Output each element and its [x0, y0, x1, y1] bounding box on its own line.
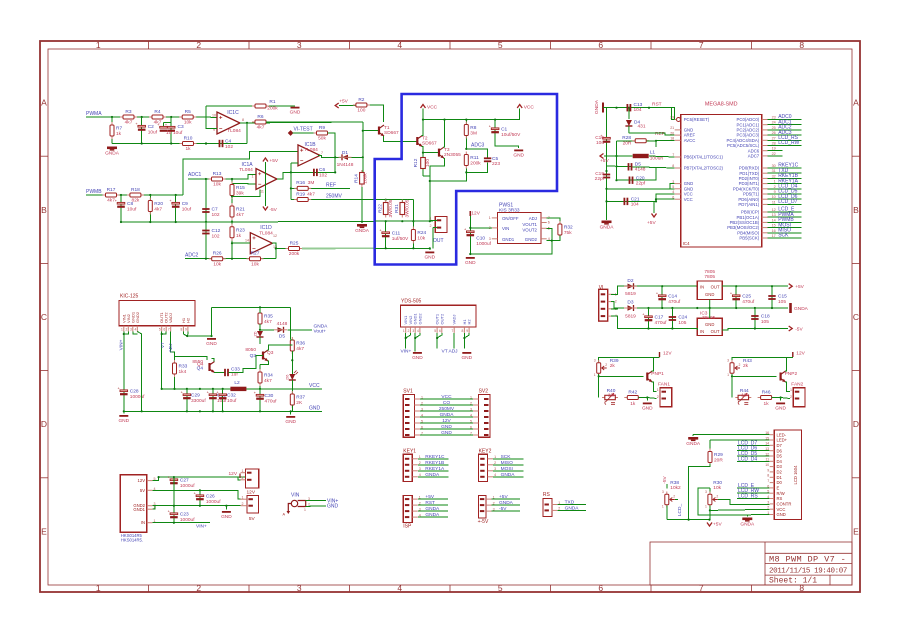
wire [547, 218, 560, 224]
svg-text:1: 1 [403, 329, 405, 333]
junction [385, 220, 387, 222]
wire RKEY1C [418, 458, 449, 460]
svg-text:+5V: +5V [499, 494, 508, 500]
diode D5 [274, 327, 287, 333]
svg-text:1: 1 [774, 180, 776, 184]
wire [415, 333, 420, 338]
svg-text:1: 1 [657, 388, 659, 392]
ground GNDA [742, 518, 752, 521]
resistor R46 [758, 396, 775, 400]
svg-text:3: 3 [130, 328, 132, 332]
svg-text:102: 102 [225, 144, 233, 150]
svg-text:R34: R34 [264, 373, 273, 379]
wire -5V [611, 316, 697, 329]
svg-text:1000uf: 1000uf [206, 499, 221, 505]
wire [175, 195, 177, 222]
svg-text:RKEY1B: RKEY1B [425, 460, 444, 466]
svg-text:5: 5 [498, 583, 503, 593]
svg-text:105: 105 [778, 299, 786, 305]
ground GND [466, 257, 475, 259]
potentiometer R30 [709, 492, 711, 508]
capacitor C24 [669, 317, 676, 320]
junction [709, 509, 711, 511]
svg-text:4k7: 4k7 [154, 207, 162, 213]
svg-text:104: 104 [631, 201, 639, 207]
svg-text:431: 431 [638, 124, 646, 130]
resistor R17 [103, 193, 120, 197]
resistor R31 [400, 200, 405, 218]
wire [259, 307, 261, 313]
wire [334, 133, 336, 157]
wire [173, 477, 175, 506]
pin 3 [147, 505, 153, 507]
svg-text:1: 1 [121, 328, 123, 332]
svg-text:2: 2 [242, 502, 244, 506]
resistor R6 [252, 120, 269, 124]
resistor R26 [209, 257, 226, 261]
ground GND [425, 251, 434, 253]
wire LCD_D7 [768, 203, 802, 205]
wire LCD_E [768, 211, 802, 213]
ground GND [291, 107, 300, 109]
wire XTAL1 [649, 156, 675, 157]
wire Q4-C33 [214, 372, 224, 374]
junction [275, 247, 277, 249]
wire ADC1 [768, 124, 802, 126]
svg-text:-5V: -5V [499, 506, 507, 512]
svg-text:GND2: GND2 [417, 313, 422, 325]
junction [205, 142, 207, 144]
wire [430, 172, 467, 181]
drawing frame [40, 41, 860, 592]
junction [199, 489, 201, 491]
wire [173, 506, 175, 523]
svg-text:3W/0.05: 3W/0.05 [388, 199, 394, 217]
svg-text:50k: 50k [318, 136, 326, 142]
wire base [732, 375, 777, 377]
wire [211, 116, 217, 119]
svg-text:KEY2: KEY2 [479, 449, 492, 455]
wire [628, 108, 630, 119]
svg-text:R12: R12 [413, 158, 419, 167]
svg-text:TL084: TL084 [259, 231, 273, 237]
wire [186, 389, 188, 411]
junction [222, 410, 224, 412]
svg-text:ADC1: ADC1 [188, 172, 202, 178]
wire 12V [420, 422, 473, 424]
svg-text:3: 3 [767, 500, 769, 504]
wire LCD_D6 [768, 198, 802, 200]
connector FAN1 [660, 388, 672, 407]
svg-text:10uf/50V: 10uf/50V [501, 132, 521, 138]
wire [222, 389, 224, 411]
wire GND [306, 505, 326, 508]
wire RST2 [671, 108, 674, 120]
svg-text:VCC: VCC [427, 105, 438, 111]
svg-text:RST: RST [652, 102, 662, 108]
svg-text:C29: C29 [191, 393, 200, 399]
svg-text:Q4: Q4 [197, 366, 204, 372]
wire [647, 398, 656, 399]
svg-text:12: 12 [273, 234, 277, 238]
wire [259, 389, 261, 411]
wire T3 collector [444, 120, 445, 147]
junction [175, 221, 177, 223]
svg-text:C28: C28 [130, 389, 139, 395]
svg-text:YDS-505: YDS-505 [401, 298, 422, 304]
svg-text:SV1: SV1 [403, 388, 413, 394]
junction [361, 221, 363, 223]
junction [173, 522, 175, 524]
diode D2 [624, 283, 637, 289]
junction [334, 171, 336, 173]
connector OUT [435, 216, 447, 232]
svg-text:C18: C18 [761, 314, 770, 320]
svg-text:3: 3 [308, 497, 310, 501]
svg-text:C12: C12 [212, 228, 221, 234]
wire PWMB [768, 221, 802, 223]
wire GNDA [420, 416, 473, 418]
wire [616, 141, 618, 167]
junction [422, 152, 424, 154]
svg-text:+5V: +5V [795, 284, 804, 290]
wire [170, 117, 172, 144]
wire [149, 195, 151, 222]
wire [746, 515, 748, 517]
wire [781, 398, 790, 399]
svg-text:H2: H2 [467, 319, 472, 325]
wire [185, 258, 276, 260]
svg-text:223: 223 [492, 161, 500, 167]
wire [133, 332, 138, 335]
junction [648, 107, 650, 109]
wire [288, 329, 313, 331]
svg-text:24: 24 [772, 121, 776, 125]
svg-text:6: 6 [548, 221, 550, 225]
wire [232, 189, 260, 196]
svg-text:C14: C14 [668, 294, 677, 300]
wire [653, 357, 659, 359]
svg-text:8: 8 [462, 329, 464, 333]
wire 5V [152, 490, 240, 499]
svg-text:VT: VT [160, 342, 166, 348]
svg-text:D7: D7 [777, 443, 783, 448]
wire [291, 351, 293, 374]
svg-text:1000uf: 1000uf [180, 483, 195, 489]
wire vcc pins [607, 200, 657, 202]
wire base [599, 375, 644, 377]
wire SCK [493, 458, 523, 460]
svg-text:R7: R7 [116, 126, 122, 132]
svg-text:GND: GND [461, 355, 472, 361]
svg-text:2: 2 [716, 495, 718, 499]
svg-text:12V: 12V [138, 478, 146, 483]
svg-text:2k: 2k [743, 363, 749, 369]
svg-text:25: 25 [772, 126, 776, 130]
junction [149, 221, 151, 223]
wire [277, 172, 335, 179]
junction [735, 285, 737, 287]
svg-text:2: 2 [125, 328, 127, 332]
svg-text:1k: 1k [630, 401, 636, 407]
wire GNDA [493, 476, 523, 478]
transistor Q3 [263, 350, 268, 361]
wire [212, 389, 214, 411]
junction [111, 116, 113, 118]
svg-text:AVCC: AVCC [684, 138, 696, 143]
svg-text:22pf: 22pf [595, 176, 605, 182]
junction [494, 119, 496, 121]
wire [617, 140, 635, 142]
svg-text:GNDA: GNDA [565, 505, 580, 511]
resistor R37 [290, 391, 294, 408]
svg-text:LED+: LED+ [777, 438, 788, 443]
junction [231, 221, 233, 223]
resistor R23 [230, 224, 234, 241]
pin 5 [147, 480, 153, 482]
ground GNDA (rail) [789, 303, 792, 313]
svg-text:GND: GND [705, 322, 714, 327]
wire [709, 488, 711, 494]
wire [735, 286, 737, 308]
module PWS1 [497, 212, 541, 243]
svg-text:200k: 200k [470, 161, 481, 167]
svg-text:3: 3 [297, 40, 302, 50]
wire [692, 435, 694, 436]
power +5V [707, 523, 712, 527]
IC U-MCU IC4 MEGA8-SMD [681, 114, 762, 247]
svg-text:A: A [41, 98, 47, 108]
svg-text:GND: GND [513, 152, 524, 158]
capacitor C8 (polarized) [115, 199, 125, 208]
junction [222, 388, 224, 390]
svg-text:5: 5 [498, 40, 503, 50]
wire GND [420, 434, 473, 436]
wire wiper [675, 498, 678, 500]
svg-text:GND: GND [327, 504, 339, 510]
junction [655, 200, 657, 202]
module LCD1 (LCD 1604) [774, 430, 801, 519]
junction [615, 107, 617, 109]
svg-text:31: 31 [772, 169, 776, 173]
svg-text:SCK: SCK [778, 233, 789, 239]
svg-text:2: 2 [739, 363, 741, 367]
wire REF [291, 187, 350, 189]
svg-text:PB7(XTAL2/TOSC2): PB7(XTAL2/TOSC2) [684, 166, 724, 171]
potentiometer R39 [598, 360, 600, 376]
wire [199, 490, 201, 505]
svg-text:TL084: TL084 [239, 167, 253, 173]
svg-text:3W/0.05: 3W/0.05 [405, 199, 411, 217]
junction [120, 221, 122, 223]
power +5V [600, 154, 604, 159]
svg-text:C4: C4 [225, 139, 231, 145]
wire [259, 324, 261, 330]
wire to Q3 [229, 369, 254, 373]
power VCC [421, 105, 426, 109]
junction [175, 194, 177, 196]
wire [423, 175, 430, 177]
title block [650, 542, 852, 585]
wire ADJ [453, 333, 455, 349]
svg-text:7: 7 [699, 583, 704, 593]
wire [661, 286, 663, 308]
wire TXD [768, 172, 802, 174]
svg-text:1000uf: 1000uf [130, 394, 145, 400]
svg-text:8: 8 [767, 474, 769, 478]
svg-text:R24: R24 [417, 230, 426, 236]
svg-text:+5V: +5V [425, 494, 434, 500]
ground GNDA [107, 147, 117, 150]
capacitor C14 (polarized) [656, 292, 666, 301]
wire GNDA [418, 516, 448, 518]
svg-text:10k: 10k [713, 485, 721, 491]
svg-text:R20: R20 [154, 201, 163, 207]
capacitor C30 (polarized) [254, 391, 264, 400]
wire GNDA [418, 476, 449, 478]
capacitor C27 (polarized) [168, 476, 178, 485]
wire [611, 307, 617, 310]
resistor R10 [180, 142, 197, 146]
junction [465, 171, 467, 173]
svg-text:C17: C17 [655, 315, 664, 321]
svg-text:7: 7 [767, 479, 769, 483]
svg-text:D3: D3 [627, 300, 633, 306]
svg-text:3M: 3M [308, 180, 315, 186]
svg-text:GNDA: GNDA [440, 412, 455, 418]
connector VI [599, 289, 608, 321]
svg-text:VCC: VCC [524, 105, 535, 111]
svg-text:15: 15 [772, 224, 776, 228]
wire [768, 150, 783, 152]
power -5V [263, 207, 268, 211]
junction [259, 410, 261, 412]
svg-text:GNDA: GNDA [425, 472, 440, 478]
power +5V [335, 103, 339, 108]
wire CO [420, 404, 473, 406]
junction [362, 130, 364, 132]
wire [123, 411, 125, 413]
wire VCC [420, 398, 473, 400]
svg-text:GND: GND [118, 418, 129, 424]
svg-text:19: 19 [772, 147, 776, 151]
wire [211, 307, 213, 336]
svg-text:39k: 39k [236, 191, 244, 197]
svg-text:GND: GND [221, 514, 232, 520]
svg-text:10: 10 [212, 114, 216, 118]
resistor R33 [173, 360, 177, 377]
svg-text:470uf: 470uf [265, 398, 278, 404]
wire RST [418, 504, 448, 506]
svg-text:OUT2: OUT2 [439, 313, 444, 324]
wire [653, 201, 655, 213]
junction [731, 375, 733, 377]
wire 12V [152, 477, 245, 481]
svg-text:-5V: -5V [269, 207, 277, 213]
junction [429, 247, 431, 249]
svg-text:20R: 20R [623, 141, 632, 147]
svg-text:B: B [853, 205, 859, 215]
wire [120, 195, 122, 222]
svg-text:REF: REF [326, 182, 336, 188]
junction [259, 329, 261, 331]
junction [186, 410, 188, 412]
wire [709, 440, 711, 451]
inductor L1 [633, 154, 649, 158]
svg-text:GND: GND [441, 430, 452, 436]
op-amp IC1A [256, 169, 277, 190]
junction [688, 519, 690, 521]
wire [260, 329, 274, 331]
junction [149, 194, 151, 196]
wire [696, 329, 698, 331]
svg-text:FAN1: FAN1 [658, 382, 670, 388]
resistor R25 [286, 247, 303, 251]
ground GNDA [357, 224, 367, 227]
svg-text:GND: GND [777, 512, 786, 517]
svg-text:R46: R46 [762, 389, 771, 395]
wire VIN+ [405, 333, 407, 349]
wire [666, 484, 668, 488]
svg-text:R6: R6 [257, 114, 263, 120]
svg-text:1k4: 1k4 [179, 369, 187, 375]
svg-text:17: 17 [772, 234, 776, 238]
wire [785, 362, 787, 371]
svg-text:75k: 75k [564, 230, 572, 236]
capacitor C26 (polarized) [194, 492, 204, 501]
svg-text:VCC: VCC [309, 383, 320, 389]
svg-text:12V: 12V [663, 351, 672, 357]
transistor T3 [439, 147, 444, 158]
wire [362, 157, 364, 179]
pin 2 [147, 508, 153, 510]
svg-text:12V: 12V [247, 490, 256, 496]
svg-text:20R: 20R [714, 458, 723, 464]
svg-text:105: 105 [678, 320, 686, 326]
capacitor C15 [768, 296, 775, 299]
svg-text:GND: GND [775, 405, 786, 411]
svg-text:R21: R21 [236, 207, 245, 213]
svg-text:D5: D5 [777, 454, 783, 459]
wire REF [629, 133, 675, 135]
capacitor C12 [202, 231, 209, 234]
svg-text:4148: 4148 [635, 167, 646, 173]
capacitor C10 (polarized) [464, 228, 474, 237]
svg-text:4: 4 [134, 328, 136, 332]
wire [422, 153, 424, 176]
svg-text:Q3: Q3 [250, 353, 257, 359]
junction [173, 476, 175, 478]
svg-text:MOSI: MOSI [501, 466, 513, 472]
junction [754, 327, 756, 329]
svg-text:GNDA: GNDA [594, 99, 600, 114]
svg-text:GND: GND [290, 110, 301, 116]
wire T1 emitter [383, 136, 417, 142]
junction [414, 337, 416, 339]
wire [187, 335, 211, 337]
wire [375, 247, 430, 249]
svg-text:10: 10 [772, 195, 776, 199]
svg-text:8550: 8550 [192, 359, 203, 365]
wire emitter [652, 382, 657, 392]
wire [231, 179, 233, 259]
ground GND [207, 338, 216, 340]
svg-text:E: E [853, 526, 859, 536]
svg-text:6: 6 [163, 328, 165, 332]
svg-text:C16: C16 [595, 135, 604, 141]
svg-text:MISO: MISO [501, 460, 514, 466]
svg-text:R27: R27 [251, 251, 260, 257]
